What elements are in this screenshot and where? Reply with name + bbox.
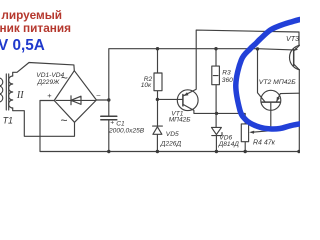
svg-text:Д229Ж: Д229Ж — [37, 79, 61, 86]
svg-text:+: + — [47, 91, 52, 100]
svg-text:ник питания: ник питания — [0, 21, 71, 35]
svg-text:VT3: VT3 — [286, 34, 299, 43]
svg-text:2000,0х25В: 2000,0х25В — [108, 128, 145, 135]
svg-text:C1: C1 — [116, 120, 125, 127]
svg-text:II: II — [16, 90, 24, 101]
svg-text:10к: 10к — [141, 82, 152, 89]
svg-text:R3: R3 — [222, 70, 231, 77]
svg-text:V 0,5A: V 0,5A — [0, 37, 45, 54]
svg-text:360: 360 — [222, 77, 233, 84]
svg-text:VT2 МП42Б: VT2 МП42Б — [259, 79, 297, 86]
svg-text:МП42Б: МП42Б — [169, 116, 192, 123]
svg-text:VD5: VD5 — [166, 131, 179, 138]
svg-text:R4 47к: R4 47к — [253, 139, 276, 146]
svg-text:+: + — [110, 120, 114, 127]
svg-text:–: – — [97, 92, 101, 99]
svg-text:Д226Д: Д226Д — [160, 140, 182, 147]
svg-text:Д814Д: Д814Д — [218, 141, 240, 148]
svg-text:~: ~ — [61, 114, 68, 128]
svg-text:Т1: Т1 — [3, 115, 13, 125]
svg-text:VD1-VD4: VD1-VD4 — [36, 72, 64, 79]
